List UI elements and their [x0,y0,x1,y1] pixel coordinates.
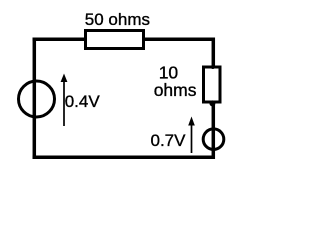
wire: left side [33,38,37,160]
wire: bottom side [33,156,216,160]
junction dot at bottom of R2 [209,100,215,106]
svg-text:ohms: ohms [154,80,197,100]
resistor R1 50 ohms (horizontal box in top wire) [86,31,144,49]
wire: right side [212,38,216,160]
arrow for V1 (points up) [61,74,68,127]
svg-text:0.7V: 0.7V [151,131,187,150]
source V1 0.4V (circle on left wire) [19,81,55,117]
svg-text:50 ohms: 50 ohms [85,10,150,29]
wire: top side [33,38,216,42]
svg-text:0.4V: 0.4V [65,92,101,111]
source V2 0.7V (circle on right wire, bottom) [203,129,224,150]
junction nub at top of R2 [211,65,215,69]
arrow for V2 (points up) [188,117,195,154]
resistor R2 10 ohms (vertical box in right wire) [204,67,221,102]
